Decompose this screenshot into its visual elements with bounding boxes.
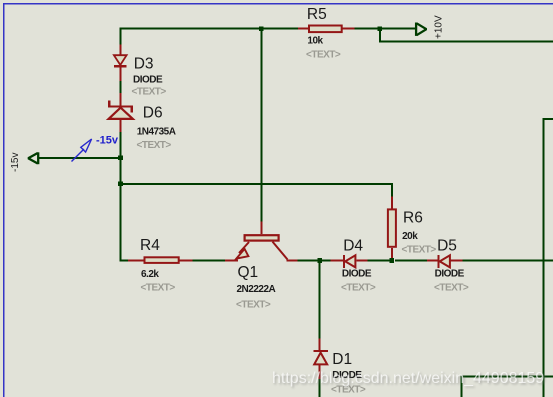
power terminal +10V [416,23,426,36]
wire R4 left corner horizontal [120,260,128,262]
svg-text:DIODE: DIODE [342,269,372,280]
pin D6 bottom [120,119,122,132]
wire top rail left segment [120,28,299,30]
wire D4 to R6 junction [368,260,390,262]
diode D4 [343,255,356,268]
svg-text:D5: D5 [437,238,457,255]
svg-text:<TEXT>: <TEXT> [306,50,341,61]
wire corner drop at x=379.8 [379,28,381,42]
wire second rail y=41.5 to right edge [379,41,553,43]
pin D6 top [120,93,122,106]
diode D1 [314,350,328,365]
pin R6 top [391,197,393,209]
wire mid rail y=183.8 [120,183,392,185]
pin Q1 base [260,222,262,235]
junction node D1 branch [317,258,322,263]
pin R5 left [298,28,308,30]
pin Q1 emitter lead [225,260,238,262]
wire bottom-right horizontal y=376.6 [461,376,553,378]
wire below D1 to bottom edge [319,379,321,397]
wire below D6 down to R4 corner [120,132,122,262]
svg-text:2N2222A: 2N2222A [237,284,276,295]
pin D1 top [319,338,321,350]
svg-text:20k: 20k [402,231,418,242]
pin R4 left [128,260,144,262]
svg-text:DIODE: DIODE [435,269,465,280]
watermark [272,370,546,389]
svg-text:<TEXT>: <TEXT> [341,282,376,293]
svg-text:+10V: +10V [434,15,445,39]
pin R5 right [343,28,355,30]
pin D4 cathode [356,260,367,262]
pin Q1 collector lead [287,260,298,262]
svg-text:1N4735A: 1N4735A [137,127,176,138]
pin D5 anode [427,260,438,262]
svg-text:<TEXT>: <TEXT> [402,245,437,256]
svg-text:<TEXT>: <TEXT> [434,282,469,293]
svg-text:D4: D4 [343,238,363,255]
svg-text:R5: R5 [307,6,327,23]
pin D4 anode [330,260,343,262]
resistor R5 [309,26,342,33]
pin D3 cathode [120,67,122,80]
pin D1 bottom [319,365,321,379]
resistor R4 [145,257,179,263]
junction node top at Q1 base [259,26,264,31]
wire right vertical x=543.4 [542,118,544,397]
svg-text:DIODE: DIODE [133,75,163,86]
svg-text:D3: D3 [134,55,154,72]
zener diode D6 [108,100,133,119]
pin D3 anode [120,44,122,55]
wire D5 to right edge [463,260,553,262]
wire -15v terminal to vertical [38,157,120,159]
wire vertical above D3 [120,29,122,45]
wire bottom-right vertical x=461.5 [461,376,463,397]
svg-text:<TEXT>: <TEXT> [137,140,172,151]
wire top rail right segment to +10V arrow [354,28,416,30]
diode D5 [437,255,450,268]
svg-text:-15v: -15v [96,135,119,147]
wire R4 right to Q1 emitter [192,260,225,262]
svg-text:D1: D1 [332,351,352,368]
svg-text:D6: D6 [143,105,163,122]
svg-text:<TEXT>: <TEXT> [236,300,271,311]
wire junction to D4 [320,260,331,262]
diode D3 [114,55,127,67]
junction node R6 bottom [390,258,395,263]
wire Q1 collector to junction [298,260,320,262]
sheet border left [3,3,5,397]
svg-text:https://blog.csdn.net/weixin_4: https://blog.csdn.net/weixin_44908159 [272,370,544,387]
probe marker blue arrow [72,139,92,162]
resistor R6 [388,209,396,246]
power terminal -15v [28,152,38,164]
svg-text:<TEXT>: <TEXT> [141,283,176,294]
wire junction down to D1 [319,261,321,339]
wire Q1 base vertical [260,29,262,222]
svg-text:Q1: Q1 [238,264,259,281]
pin D5 cathode [451,260,463,262]
transistor Q1 [236,235,287,259]
junction node top at +10V drop [378,26,383,31]
wire between D3 and D6 [120,81,122,93]
sheet border top [3,3,553,5]
svg-text:R6: R6 [403,209,423,226]
svg-text:R4: R4 [140,237,160,254]
pin R4 right [180,260,193,262]
junction node mid rail [118,182,123,187]
pin R6 bottom [391,248,393,260]
wire right edge entry y=119 [542,118,553,120]
wire R6 junction to D5 [395,260,427,262]
svg-text:10k: 10k [307,36,323,47]
svg-text:<TEXT>: <TEXT> [132,87,167,98]
wire R6 top vertical [391,183,393,198]
svg-text:-15v: -15v [10,153,21,172]
svg-text:6.2k: 6.2k [141,269,159,280]
junction node -15v wire [118,156,123,161]
